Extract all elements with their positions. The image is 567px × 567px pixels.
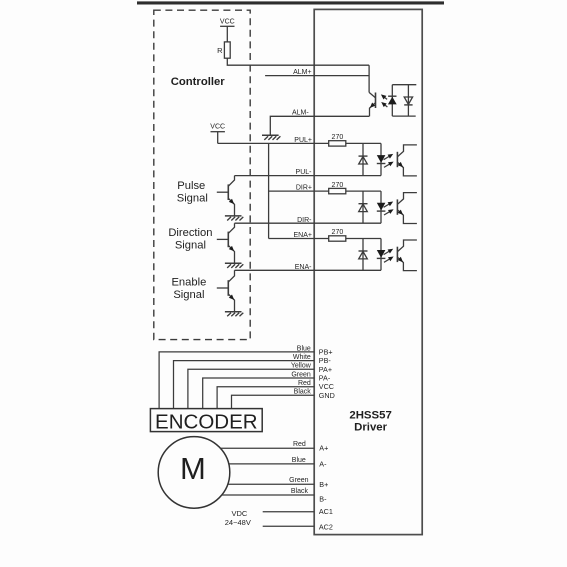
svg-text:Blue: Blue [297,345,311,352]
svg-text:AC2: AC2 [319,523,333,532]
wire AC2 [263,525,315,527]
svg-text:PB+: PB+ [319,347,333,356]
diode protection (ENA) [362,239,364,271]
wire VCC1 to R [226,26,228,42]
svg-text:A-: A- [319,459,327,468]
svg-text:Signal: Signal [175,240,206,252]
diode protection (PUL) [362,143,364,175]
svg-text:Black: Black [294,389,312,396]
wire PUL+ [218,142,329,144]
svg-text:Signal: Signal [173,289,204,301]
svg-text:M: M [180,451,206,486]
LED opto (DIR) [380,191,382,223]
svg-text:GND: GND [319,391,335,400]
svg-text:270: 270 [332,134,344,141]
svg-text:B-: B- [319,494,327,503]
svg-text:Blue: Blue [292,457,306,464]
transistor Q1 pulse [217,191,229,193]
LED D1 (up) [388,95,396,97]
light arrows (ENA) [384,251,390,255]
svg-text:Green: Green [289,477,309,484]
svg-text:PUL-: PUL- [296,169,313,176]
opto LED pair U1 [391,85,393,116]
resistor 270 (PUL) [329,141,346,146]
svg-text:DIR-: DIR- [297,217,312,224]
wire ENA- [235,269,382,271]
opto transistor (DIR) [396,199,398,214]
ground ALM- [262,134,279,136]
diode D2 (down) [404,104,412,106]
svg-text:DIR+: DIR+ [296,185,312,192]
light arrows (DIR) [384,204,390,208]
wire VCC2 to PUL+ [217,132,219,144]
svg-text:Red: Red [293,441,306,448]
controller box [154,10,250,339]
transistor Q3 enable [217,287,229,289]
svg-text:White: White [293,354,311,361]
encoder box [150,409,262,432]
ground Q2 [225,262,242,264]
svg-text:Green: Green [291,371,311,378]
wire encoder Black to GND [232,395,315,408]
svg-text:VCC: VCC [210,124,225,131]
svg-text:VDC: VDC [231,509,247,518]
svg-text:ENA-: ENA- [295,264,312,271]
svg-text:PB-: PB- [319,356,332,365]
wire DIR+ [269,190,329,192]
svg-text:Yellow: Yellow [291,363,312,370]
svg-text:ENCODER: ENCODER [155,410,258,433]
svg-text:PA+: PA+ [319,365,332,374]
svg-text:PUL+: PUL+ [294,137,312,144]
wire encoder White to PB- [174,361,315,409]
wire DIR- [235,222,382,224]
light arrows U1 [384,97,387,100]
wire encoder Red to VCC [217,387,314,409]
svg-text:PA-: PA- [319,374,331,383]
svg-text:270: 270 [332,182,344,189]
wire motor Green to B+ [228,483,314,485]
wire motor Red to A+ [220,447,314,449]
wire AC1 [263,511,315,513]
resistor 270 (ENA) [329,236,346,241]
driver box 2HSS57 [314,9,422,534]
svg-text:ENA+: ENA+ [294,232,312,239]
wire motor Black to B- [222,494,315,496]
svg-text:R: R [217,46,223,55]
svg-text:A+: A+ [319,444,328,453]
ground Q1 [225,215,242,217]
svg-text:Pulse: Pulse [177,180,205,192]
svg-text:ALM+: ALM+ [293,69,311,76]
LED opto (ENA) [380,239,382,271]
wire motor Blue to A- [229,463,314,465]
motor M [158,437,230,509]
svg-text:Red: Red [298,380,311,387]
svg-text:2HSS57: 2HSS57 [349,410,391,422]
opto transistor U1 output [368,65,370,92]
svg-text:AC1: AC1 [319,507,333,516]
wire encoder Blue to PB+ [159,352,314,409]
wire encoder Green to PA- [203,378,315,409]
light arrows (PUL) [384,156,390,160]
wire R to ALM node [227,58,369,65]
svg-text:Black: Black [291,488,309,495]
resistor R [224,42,230,58]
svg-text:Driver: Driver [354,421,387,433]
wire ALM+ [265,75,369,77]
svg-text:ALM-: ALM- [292,110,309,117]
svg-text:24~48V: 24~48V [225,518,251,527]
transistor Q2 direction [217,238,229,240]
wire PUL- [235,175,382,177]
svg-text:Direction: Direction [168,227,212,239]
wire ALM- with ground stub [270,116,369,135]
opto transistor (ENA) [396,247,398,262]
svg-text:VCC: VCC [220,18,235,25]
wire encoder Yellow to PA+ [188,369,314,408]
wire VCC feed vertical [268,143,270,238]
svg-text:Enable: Enable [171,276,206,288]
diode protection (DIR) [362,191,364,223]
LED opto (PUL) [380,143,382,175]
wire ENA+ [269,238,329,240]
resistor 270 (DIR) [329,188,346,193]
svg-text:B+: B+ [319,480,328,489]
svg-text:270: 270 [332,229,344,236]
opto transistor (PUL) [396,152,398,167]
top border bar [137,1,444,4]
svg-text:Signal: Signal [177,193,208,205]
ground Q3 [225,311,242,313]
svg-text:Controller: Controller [171,76,226,88]
